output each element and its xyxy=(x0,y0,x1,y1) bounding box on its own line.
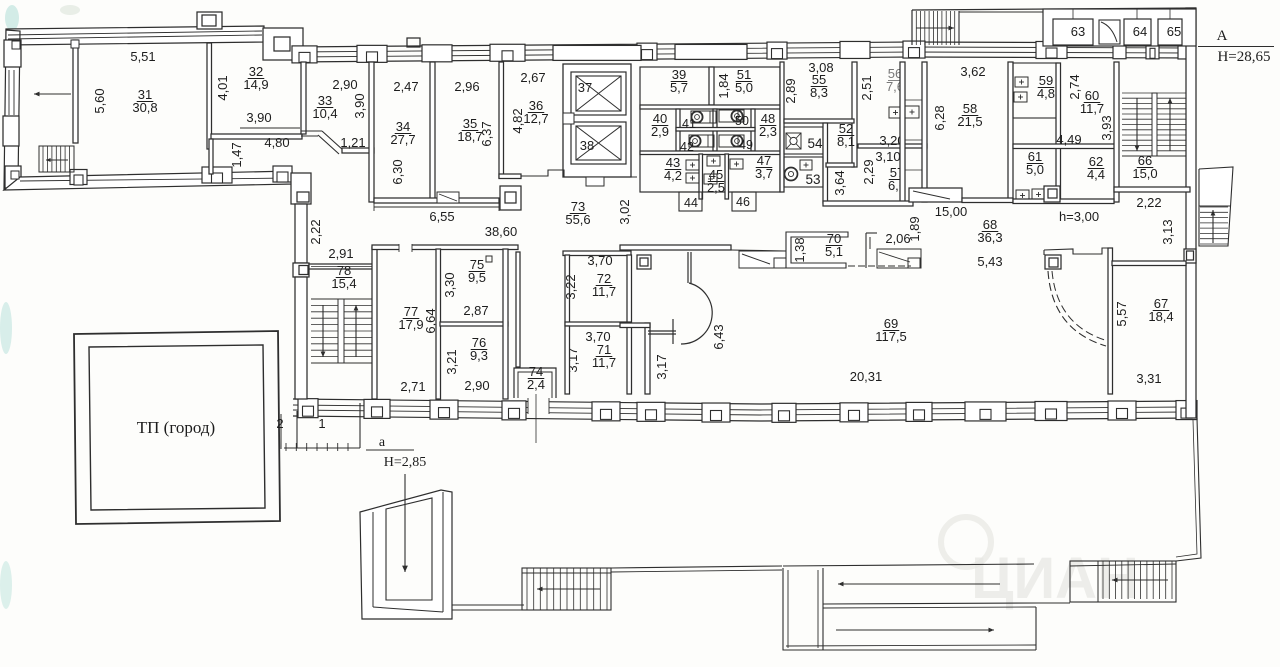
east outside stairs xyxy=(1199,167,1233,246)
structure 68 top wall xyxy=(1044,248,1110,254)
svg-text:1,84: 1,84 xyxy=(716,73,731,98)
door leaf 63 xyxy=(1099,20,1120,44)
ramp arrow xyxy=(404,474,406,572)
wall 33-34 xyxy=(369,62,374,202)
duct wall xyxy=(516,252,520,367)
svg-text:3,17: 3,17 xyxy=(654,354,669,379)
svg-text:64: 64 xyxy=(1133,24,1147,39)
wall 55-56 xyxy=(852,62,857,167)
wall under wc row xyxy=(640,151,780,155)
south wall 61/62 xyxy=(1013,199,1114,204)
room 33 chamfer xyxy=(301,130,322,132)
vestibule 70 box xyxy=(786,232,848,268)
car ramp upper lane xyxy=(783,564,1034,566)
svg-text:9,5: 9,5 xyxy=(468,270,486,285)
svg-text:2,29: 2,29 xyxy=(861,159,876,184)
plaza left stairs xyxy=(522,568,611,610)
stairwell 78 hatch xyxy=(311,298,338,300)
wall 75-76 xyxy=(440,322,508,326)
wall between rooms 31 32 xyxy=(207,43,212,149)
svg-text:9,3: 9,3 xyxy=(470,348,488,363)
svg-text:5,1: 5,1 xyxy=(825,244,843,259)
wing bottom pilaster xyxy=(202,167,232,183)
svg-text:38: 38 xyxy=(580,138,594,153)
wall 35-36 xyxy=(499,62,504,178)
plaza right stairs xyxy=(1070,561,1176,602)
east wall pilaster xyxy=(1184,249,1196,263)
svg-text:1,47: 1,47 xyxy=(229,142,244,167)
ramp inner xyxy=(386,498,432,600)
svg-text:5,51: 5,51 xyxy=(130,49,155,64)
room 58 south wall xyxy=(962,198,1013,203)
svg-text:6,30: 6,30 xyxy=(390,159,405,184)
room 59 sinks xyxy=(1015,77,1028,87)
wing window lines xyxy=(8,31,262,35)
svg-text:11,7: 11,7 xyxy=(592,355,616,370)
svg-text:ЦИАН: ЦИАН xyxy=(971,546,1139,611)
car ramp left box xyxy=(783,568,823,650)
room 67 west wall xyxy=(1108,248,1113,394)
TP block outer xyxy=(74,331,280,524)
west wall pilaster xyxy=(293,263,309,277)
svg-text:1,21: 1,21 xyxy=(340,135,365,150)
curved partition xyxy=(687,252,689,283)
svg-text:4,4: 4,4 xyxy=(1087,167,1105,182)
svg-text:5,0: 5,0 xyxy=(735,80,753,95)
stair rail 78 xyxy=(338,299,344,363)
top strip outline xyxy=(912,8,1196,10)
shaft notch xyxy=(563,113,574,124)
elevator shaft top thick wall xyxy=(553,45,641,60)
svg-text:2,71: 2,71 xyxy=(400,379,425,394)
svg-text:3,70: 3,70 xyxy=(587,253,612,268)
svg-text:5,43: 5,43 xyxy=(977,254,1002,269)
svg-text:Н=2,85: Н=2,85 xyxy=(384,455,427,470)
car ramp lower lane xyxy=(786,645,1036,646)
room 78 north wall xyxy=(309,264,375,269)
wc 41 xyxy=(691,111,716,123)
svg-text:3,02: 3,02 xyxy=(617,199,632,224)
room 75 door square xyxy=(486,256,492,262)
room 54 xyxy=(784,127,823,154)
T wall xyxy=(648,330,676,332)
svg-text:63: 63 xyxy=(1071,24,1085,39)
svg-text:6,28: 6,28 xyxy=(932,105,947,130)
wc 50 xyxy=(719,110,744,122)
west wall lower xyxy=(295,277,307,399)
wall 56-57 xyxy=(858,144,927,148)
pilaster below corridor xyxy=(637,255,651,269)
wc 49 xyxy=(719,135,744,147)
svg-text:36,3: 36,3 xyxy=(977,230,1002,245)
rooms 34-35 south wall xyxy=(374,198,499,203)
window ticks above rooms xyxy=(1072,9,1074,19)
dashed curved wall xyxy=(1048,271,1106,346)
entry hall wall xyxy=(73,40,78,143)
corridor south wall mid xyxy=(620,245,731,250)
main top wall band xyxy=(292,42,1196,47)
corridor dashed line xyxy=(848,265,911,267)
elevator shaft outline xyxy=(563,64,631,177)
wall under 60 xyxy=(1013,144,1116,149)
svg-text:2,89: 2,89 xyxy=(783,78,798,103)
ramp outer xyxy=(360,490,452,619)
plaza edge xyxy=(611,566,782,568)
room 77 west wall xyxy=(372,247,377,399)
scan speck xyxy=(0,561,12,609)
svg-text:4,82: 4,82 xyxy=(510,108,525,133)
svg-text:2,90: 2,90 xyxy=(332,77,357,92)
wing left pilaster xyxy=(4,40,21,67)
wc 42 xyxy=(689,135,714,147)
room 58 east wall xyxy=(1008,62,1013,202)
svg-text:11,7: 11,7 xyxy=(592,284,616,299)
svg-text:3,70: 3,70 xyxy=(585,329,610,344)
plaza left connector xyxy=(452,609,524,611)
corridor corner block xyxy=(500,186,521,210)
svg-text:2: 2 xyxy=(276,416,283,431)
ramp inner lines xyxy=(372,512,374,607)
right stairs arrow xyxy=(1112,579,1168,581)
svg-text:6,43: 6,43 xyxy=(711,324,726,349)
wc cluster outline xyxy=(640,67,780,192)
svg-text:117,5: 117,5 xyxy=(875,329,907,344)
svg-text:2,47: 2,47 xyxy=(393,79,418,94)
stair arrows xyxy=(1136,98,1138,151)
lower wc walls xyxy=(699,154,703,199)
svg-text:2,87: 2,87 xyxy=(463,303,488,318)
room 59 box xyxy=(1013,63,1058,118)
svg-text:3,21: 3,21 xyxy=(444,349,459,374)
room 36 south wall xyxy=(499,174,521,179)
watermark circle xyxy=(941,517,991,567)
svg-text:11,7: 11,7 xyxy=(1080,101,1104,116)
svg-text:17,9: 17,9 xyxy=(398,317,423,332)
room 32 south wall xyxy=(211,134,302,139)
svg-text:15,4: 15,4 xyxy=(331,276,356,291)
east wall 75-76 xyxy=(503,249,508,399)
stair arrows 78 xyxy=(322,305,324,357)
door at 34-35 south wall xyxy=(437,192,459,203)
porch xyxy=(280,414,282,449)
room 53 xyxy=(784,157,823,187)
svg-text:10,4: 10,4 xyxy=(312,106,337,121)
svg-text:2,67: 2,67 xyxy=(520,70,545,85)
wing top-right junction block xyxy=(263,28,303,60)
svg-text:А: А xyxy=(1217,28,1228,44)
vestibule left leaf xyxy=(731,250,786,251)
svg-text:1: 1 xyxy=(318,416,325,431)
svg-text:18,4: 18,4 xyxy=(1148,309,1173,324)
svg-text:3,90: 3,90 xyxy=(352,93,367,118)
svg-text:4,49: 4,49 xyxy=(1056,132,1081,147)
wing bottom pilaster xyxy=(273,166,292,182)
svg-text:14,9: 14,9 xyxy=(243,77,268,92)
svg-text:15,00: 15,00 xyxy=(935,204,968,219)
wing left window lines xyxy=(8,70,10,115)
room 58 west wall xyxy=(922,62,927,202)
rooms 72 north wall xyxy=(563,251,631,256)
svg-text:41: 41 xyxy=(682,117,696,131)
elevator 38 xyxy=(571,122,626,164)
east wall of 56-57 xyxy=(900,62,905,203)
wing top wall xyxy=(6,26,264,45)
svg-text:5,60: 5,60 xyxy=(92,88,107,113)
svg-text:44: 44 xyxy=(684,196,698,210)
lower lane arrow xyxy=(836,629,994,631)
top band pilasters xyxy=(292,46,317,63)
svg-text:4,80: 4,80 xyxy=(264,135,289,150)
right vestibule xyxy=(866,232,877,234)
room 33 west wall xyxy=(301,62,306,134)
lobby step wall xyxy=(521,170,637,177)
door gap under room 74 xyxy=(528,397,549,414)
wing left pilaster xyxy=(5,166,21,188)
room 44 xyxy=(679,192,702,211)
svg-text:15,0: 15,0 xyxy=(1132,166,1157,181)
svg-text:3,7: 3,7 xyxy=(755,166,773,181)
svg-text:2,96: 2,96 xyxy=(454,79,479,94)
svg-text:1,38: 1,38 xyxy=(792,237,807,262)
room 52 xyxy=(823,123,828,203)
lower row north wall xyxy=(372,245,518,250)
upper lane arrow xyxy=(838,583,1000,585)
wall 34-35 xyxy=(430,62,435,202)
svg-text:3,10: 3,10 xyxy=(875,149,900,164)
svg-text:49: 49 xyxy=(739,138,753,152)
small square above band xyxy=(407,38,420,47)
stair rail xyxy=(1152,93,1157,156)
svg-text:5,0: 5,0 xyxy=(1026,162,1044,177)
wall segment at 71 northeast xyxy=(620,323,650,328)
room 63 xyxy=(1053,19,1093,45)
east wall xyxy=(1186,8,1196,418)
room 58 south window xyxy=(909,188,962,202)
stairwell 66 hatch xyxy=(1122,92,1152,94)
room 64 xyxy=(1124,19,1151,45)
lobby wall tab xyxy=(586,177,604,186)
svg-text:21,5: 21,5 xyxy=(957,114,982,129)
svg-text:1,89: 1,89 xyxy=(907,216,922,241)
svg-text:4,8: 4,8 xyxy=(1037,86,1055,101)
svg-text:8,3: 8,3 xyxy=(810,85,828,100)
wall 1,47 xyxy=(209,139,213,174)
svg-text:2,51: 2,51 xyxy=(859,75,874,100)
svg-text:54: 54 xyxy=(807,136,823,151)
scan speck xyxy=(5,5,19,31)
bottom band pilasters xyxy=(298,399,318,418)
west corner block xyxy=(291,173,311,204)
svg-text:2,90: 2,90 xyxy=(464,378,489,393)
svg-text:4,01: 4,01 xyxy=(215,75,230,100)
svg-text:6,37: 6,37 xyxy=(479,121,494,146)
main bottom wall band xyxy=(293,399,1196,404)
svg-text:38,60: 38,60 xyxy=(485,224,518,239)
TP block inner xyxy=(89,345,265,510)
top stairs arrow xyxy=(916,27,954,29)
svg-text:3,62: 3,62 xyxy=(960,64,985,79)
pilaster at 68 corner xyxy=(1044,186,1060,202)
wing bottom pilaster xyxy=(70,170,87,185)
strip corridor lines xyxy=(959,11,1043,13)
wc middle walls xyxy=(676,109,680,151)
svg-text:ТП (город): ТП (город) xyxy=(137,418,215,437)
stairs arrow xyxy=(537,588,600,590)
entry stairs arrow xyxy=(46,159,68,161)
svg-text:4,2: 4,2 xyxy=(664,168,682,183)
top stairs hatch xyxy=(911,11,913,45)
svg-text:3,64: 3,64 xyxy=(832,170,847,195)
room 72 east wall xyxy=(627,255,632,394)
svg-text:27,7: 27,7 xyxy=(390,132,415,147)
svg-text:50: 50 xyxy=(735,114,749,128)
pilaster 68 xyxy=(1045,255,1061,269)
svg-text:30,8: 30,8 xyxy=(132,100,157,115)
door gap 77 xyxy=(399,244,412,251)
scan speck xyxy=(60,5,80,15)
room 65 xyxy=(1158,19,1182,45)
wing bottom band inner line xyxy=(20,178,292,181)
south wall 66 xyxy=(1114,187,1190,192)
duct ticks xyxy=(905,99,922,101)
svg-text:2,5: 2,5 xyxy=(707,180,725,195)
svg-text:2,22: 2,22 xyxy=(1136,195,1161,210)
room 71 west wall lower xyxy=(565,326,570,394)
svg-text:3,93: 3,93 xyxy=(1099,115,1114,140)
rooms 63-65 block outline xyxy=(1043,9,1196,46)
svg-text:37: 37 xyxy=(578,80,592,95)
room 74 box xyxy=(514,368,556,398)
wall 62 east / stairwell west xyxy=(1114,62,1119,202)
svg-text:Н=28,65: Н=28,65 xyxy=(1217,49,1270,65)
wing chimney block xyxy=(197,12,222,29)
svg-text:3,31: 3,31 xyxy=(1136,371,1161,386)
wall east of 59-61 xyxy=(1056,63,1061,202)
room 33 south wall xyxy=(342,148,374,153)
svg-text:46: 46 xyxy=(736,195,750,209)
wall under 39/51 xyxy=(640,105,780,109)
svg-text:6,55: 6,55 xyxy=(429,209,454,224)
wall east of 71 xyxy=(645,323,650,394)
room 67 north wall xyxy=(1112,261,1186,266)
entry stairs xyxy=(39,146,74,172)
svg-text:53: 53 xyxy=(805,172,820,187)
svg-text:h=3,00: h=3,00 xyxy=(1059,209,1099,224)
wing left wall xyxy=(4,30,20,190)
svg-text:55,6: 55,6 xyxy=(565,212,590,227)
plaza bottom edge right xyxy=(1040,602,1070,604)
svg-text:2,91: 2,91 xyxy=(328,246,353,261)
wall 77-75 xyxy=(436,249,441,399)
svg-text:2,74: 2,74 xyxy=(1067,74,1082,99)
svg-text:2,4: 2,4 xyxy=(527,377,545,392)
svg-text:5,7: 5,7 xyxy=(670,80,688,95)
svg-text:3,30: 3,30 xyxy=(442,272,457,297)
svg-text:3,90: 3,90 xyxy=(246,110,271,125)
west wall upper xyxy=(295,204,307,263)
svg-text:3,22: 3,22 xyxy=(563,274,578,299)
svg-text:2,9: 2,9 xyxy=(651,124,669,139)
svg-text:3,13: 3,13 xyxy=(1160,219,1175,244)
svg-text:5,57: 5,57 xyxy=(1114,301,1129,326)
plaza right edge xyxy=(1176,418,1201,561)
svg-text:42: 42 xyxy=(680,140,694,154)
wc block top thick wall xyxy=(675,44,747,59)
wing bottom wall xyxy=(4,171,292,190)
room 55 xyxy=(780,62,784,192)
room 72 west wall xyxy=(565,255,570,325)
entry arrow xyxy=(34,93,71,95)
svg-text:3,08: 3,08 xyxy=(808,60,833,75)
room 46 xyxy=(732,192,756,211)
wall under 52/53 to 68 xyxy=(823,201,913,206)
svg-text:а: а xyxy=(379,435,386,450)
svg-text:8,1: 8,1 xyxy=(837,134,855,149)
corner caps xyxy=(12,41,20,49)
scan speck xyxy=(0,302,12,354)
svg-text:12,7: 12,7 xyxy=(523,111,548,126)
svg-text:65: 65 xyxy=(1167,24,1181,39)
svg-text:20,31: 20,31 xyxy=(850,369,883,384)
svg-text:2,22: 2,22 xyxy=(308,219,323,244)
elevator 37 xyxy=(571,72,626,115)
wall 39-51 xyxy=(709,67,714,105)
wall 72-71 xyxy=(565,322,631,326)
svg-text:2,3: 2,3 xyxy=(759,124,777,139)
wall under 55 xyxy=(784,119,854,123)
wing left pilaster xyxy=(3,116,19,146)
